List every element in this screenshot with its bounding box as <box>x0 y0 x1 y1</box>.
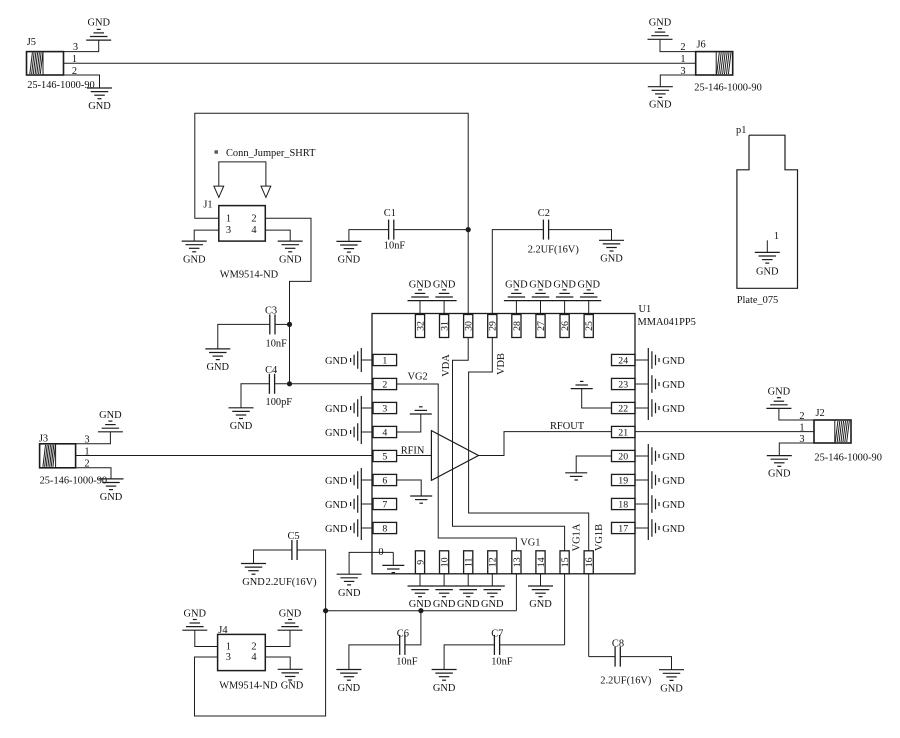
svg-text:GND: GND <box>338 683 361 694</box>
U1 pin box 11 <box>464 551 475 574</box>
J1 pin number 2 <box>251 213 256 224</box>
ground C1 <box>336 241 361 265</box>
U1 pin box 20 <box>612 450 636 462</box>
U1 pin box 10 <box>440 551 451 574</box>
svg-text:32: 32 <box>415 321 426 331</box>
ground U1 pin 7 <box>325 492 361 516</box>
svg-text:GND: GND <box>529 279 552 290</box>
svg-text:GND: GND <box>325 500 348 511</box>
wire RFOUT IC pin 21 to J2 pin1 <box>635 431 814 433</box>
wire U1 pin 20 to GND <box>635 455 648 457</box>
jumper bracket with arrows <box>214 162 271 198</box>
svg-text:GND: GND <box>99 410 122 421</box>
J6 pin number 2 <box>680 42 685 53</box>
ground J6 pin3 <box>648 87 673 111</box>
svg-text:Conn_Jumper_SHRT: Conn_Jumper_SHRT <box>226 148 316 159</box>
svg-text:VG1B: VG1B <box>594 524 605 551</box>
svg-text:25-146-1000-90: 25-146-1000-90 <box>814 452 882 463</box>
svg-text:J1: J1 <box>203 199 212 210</box>
wire U1 pin 23 to GND <box>635 383 648 385</box>
svg-text:J5: J5 <box>27 37 36 48</box>
svg-text:6: 6 <box>382 475 387 486</box>
svg-text:14: 14 <box>536 557 547 567</box>
svg-text:GND: GND <box>662 380 685 391</box>
ground C7 <box>432 670 457 695</box>
svg-text:GND: GND <box>553 279 576 290</box>
ground U1 pin 24 <box>648 348 685 372</box>
net label RFIN <box>401 446 425 457</box>
svg-text:GND: GND <box>325 524 348 535</box>
ground pin0 external <box>337 574 362 599</box>
wire U1 pin 12 to GND <box>491 574 493 586</box>
ground U1 pin 31 <box>432 279 457 300</box>
U1 pin box 5 <box>373 450 397 462</box>
svg-text:16: 16 <box>584 557 595 567</box>
ground U1 pin 18 <box>648 492 685 516</box>
svg-text:2: 2 <box>251 213 256 224</box>
U1 pin box 27 <box>536 315 547 338</box>
internal ground pin4 <box>410 407 432 414</box>
wire C8 left to pin16 net <box>589 656 615 658</box>
svg-text:GND: GND <box>662 476 685 487</box>
U1 pin box 8 <box>373 522 397 534</box>
svg-text:2.2UF(16V): 2.2UF(16V) <box>600 675 651 686</box>
svg-text:25: 25 <box>584 321 595 331</box>
wire J5 pin3 to GND <box>64 40 99 52</box>
svg-text:GND: GND <box>325 404 348 415</box>
svg-text:GND: GND <box>325 476 348 487</box>
svg-text:GND: GND <box>279 255 302 266</box>
svg-text:GND: GND <box>433 279 456 290</box>
ground C8 <box>659 670 684 695</box>
svg-text:GND: GND <box>481 599 504 610</box>
capacitor C2 2.2UF(16V) <box>528 208 579 255</box>
jumper label Conn_Jumper_SHRT <box>215 148 317 159</box>
svg-text:9: 9 <box>415 560 426 565</box>
J2 pin number 2 <box>799 411 804 422</box>
svg-text:C8: C8 <box>612 639 624 650</box>
connector J3 25-146-1000-90 <box>39 433 107 486</box>
svg-text:13: 13 <box>512 557 523 567</box>
wire U1 pin 18 to GND <box>635 503 648 505</box>
capacitor C1 10nF <box>384 208 406 252</box>
svg-text:21: 21 <box>618 427 628 438</box>
net label VG1B rotated <box>594 524 605 551</box>
ground U1 pin 10 <box>432 586 457 610</box>
capacitor C8 2.2UF(16V) <box>600 639 651 687</box>
wire J1 pin2 down to C3/C4 node <box>265 218 311 383</box>
ground C6 <box>336 670 361 695</box>
U1 pin box 30 <box>464 315 475 338</box>
svg-text:GND: GND <box>281 681 304 692</box>
U1 pin box 7 <box>373 498 397 510</box>
svg-text:GND: GND <box>87 18 110 29</box>
svg-text:GND: GND <box>100 492 123 503</box>
svg-text:10: 10 <box>440 557 451 567</box>
svg-text:4: 4 <box>382 427 387 438</box>
svg-text:C5: C5 <box>288 531 300 542</box>
svg-text:5: 5 <box>382 451 387 462</box>
ground U1 pin 9 <box>408 586 433 610</box>
wire VDB pin29 to pin16 VG1B <box>469 338 589 552</box>
internal ground pin20 <box>565 473 587 480</box>
ground U1 pin 6 <box>325 468 361 492</box>
svg-text:WM9514-ND: WM9514-ND <box>220 269 279 280</box>
wire J1 pin3 to GND <box>194 230 219 241</box>
wire U1 pin 1 to GND <box>361 359 373 361</box>
wire J6 pin2 to GND <box>660 39 696 51</box>
U1 pin box 18 <box>612 498 636 510</box>
svg-text:GND: GND <box>662 452 685 463</box>
svg-text:GND: GND <box>662 524 685 535</box>
U1 pin box 22 <box>612 402 636 414</box>
J1 pin number 1 <box>226 213 231 224</box>
ground p1 <box>755 252 780 277</box>
svg-text:10nF: 10nF <box>491 657 513 668</box>
U1 pin box 2 <box>373 378 397 390</box>
net label VG2 <box>408 372 428 383</box>
wire U1 pin 31 to GND <box>443 301 445 315</box>
U1 pin box 16 <box>584 551 595 574</box>
svg-text:VG1A: VG1A <box>572 523 583 551</box>
svg-text:11: 11 <box>464 557 475 567</box>
wire rail C5-C6-pin13 <box>326 610 517 612</box>
svg-text:VG1: VG1 <box>520 537 540 548</box>
svg-text:100pF: 100pF <box>266 397 293 408</box>
wire triangle output to pin 21 RFOUT <box>479 432 612 456</box>
wire J3 pin3 to GND <box>76 432 111 444</box>
svg-text:Plate_075: Plate_075 <box>737 295 779 306</box>
p1 pin 1 stub <box>767 231 779 252</box>
U1 pin box 29 <box>488 315 499 338</box>
svg-text:J4: J4 <box>218 625 228 636</box>
wire C4 right to IC pin 2 VG2 <box>275 383 373 385</box>
J5 pin number 1 <box>72 54 77 65</box>
wire RFIN J3 pin1 to IC pin 5 <box>76 455 373 457</box>
svg-text:GND: GND <box>505 279 528 290</box>
wire U1 pin 17 to GND <box>635 527 648 529</box>
J2 pin number 3 <box>799 434 804 445</box>
svg-text:GND: GND <box>279 608 302 619</box>
U1 pin box 1 <box>373 354 397 366</box>
U1 pin box 17 <box>612 522 636 534</box>
ground J3 pin2 <box>99 479 124 503</box>
wire C2 left down to pin 29 VDB <box>492 230 543 315</box>
wire U1 pin 10 to GND <box>443 574 445 586</box>
net label RFOUT <box>550 421 585 432</box>
svg-text:C6: C6 <box>397 629 409 640</box>
ground J4 pin1 <box>182 608 207 630</box>
U1 pin box 26 <box>560 315 571 338</box>
junction node C4 <box>287 381 292 386</box>
U1 pin box 13 <box>512 551 523 574</box>
wire RFIN pin5 to triangle <box>397 455 432 457</box>
capacitor C7 10nF <box>491 629 513 668</box>
svg-text:GND: GND <box>242 577 265 588</box>
ground U1 pin 32 <box>408 279 433 300</box>
svg-text:1: 1 <box>680 54 685 65</box>
connector J1 WM9514-ND <box>203 199 278 280</box>
svg-text:GND: GND <box>325 356 348 367</box>
wire C3 left to GND <box>218 324 270 349</box>
svg-text:GND: GND <box>433 683 456 694</box>
ground C2 <box>599 240 624 264</box>
wire J2 pin3 to GND <box>779 443 814 456</box>
svg-text:23: 23 <box>618 379 628 390</box>
ground J4 pin4 <box>278 669 304 691</box>
wire U1 pin 14 to GND <box>540 574 542 586</box>
IC U1 MMA041PP5 body <box>372 304 696 574</box>
ground J1 pin4 <box>278 241 303 265</box>
U1 pin box 32 <box>415 315 426 338</box>
wire pin4 to internal ground <box>397 414 421 432</box>
ground C3 <box>205 349 230 373</box>
svg-text:VDA: VDA <box>441 354 452 377</box>
svg-text:19: 19 <box>618 475 628 486</box>
internal ground pin0 <box>382 565 404 572</box>
U1 pin box 15 <box>560 551 571 574</box>
svg-text:GND: GND <box>662 404 685 415</box>
internal ground pin22 <box>571 381 593 388</box>
svg-text:25-146-1000-90: 25-146-1000-90 <box>694 83 762 94</box>
svg-text:8: 8 <box>382 523 387 534</box>
wire J2 pin2 to GND <box>779 408 814 420</box>
svg-text:GND: GND <box>409 279 432 290</box>
ground U1 pin 1 <box>325 348 361 372</box>
J5 pin number 2 <box>72 66 77 77</box>
svg-text:24: 24 <box>618 355 628 366</box>
svg-text:GND: GND <box>183 255 206 266</box>
svg-text:22: 22 <box>618 403 628 414</box>
svg-text:3: 3 <box>226 225 231 236</box>
svg-text:20: 20 <box>618 451 628 462</box>
svg-text:17: 17 <box>618 523 628 534</box>
wire U1 pin 4 to GND <box>361 431 373 433</box>
wire U1 pin 28 to GND <box>515 301 517 315</box>
svg-text:1: 1 <box>226 642 231 653</box>
svg-text:GND: GND <box>184 608 207 619</box>
connector J2 25-146-1000-90 <box>814 408 882 464</box>
svg-text:25-146-1000-90: 25-146-1000-90 <box>27 80 95 91</box>
ground J5 pin2 <box>87 88 112 112</box>
ground U1 pin 8 <box>325 516 361 540</box>
U1 pin box 3 <box>373 402 397 414</box>
wire pin16 down to C8 <box>588 574 590 657</box>
svg-text:4: 4 <box>251 225 257 236</box>
wire J3 pin2 to GND <box>76 468 111 479</box>
wire U1 pin 9 to GND <box>419 574 421 586</box>
wire C1 right to VDA node <box>394 229 468 231</box>
J4 pin number 4 <box>251 652 257 663</box>
capacitor C6 10nF <box>396 629 418 668</box>
J1 pin number 3 <box>226 225 231 236</box>
wire J4 pin1 to GND <box>195 630 218 646</box>
wire J5 pin2 to GND <box>64 75 100 88</box>
J3 pin number 1 <box>84 446 89 457</box>
ground J6 pin2 <box>648 18 673 40</box>
ground U1 pin 23 <box>648 372 685 396</box>
wire C8 right to GND <box>621 657 672 670</box>
ground U1 pin 17 <box>648 516 685 540</box>
svg-text:C4: C4 <box>265 365 278 376</box>
svg-text:3: 3 <box>226 652 231 663</box>
wire J6 pin3 to GND <box>660 75 695 87</box>
J6 pin number 1 <box>680 54 685 65</box>
J2 pin number 1 <box>799 422 804 433</box>
wire C5 right down to rail and J4 pin3 loop <box>195 550 326 716</box>
J4 pin number 1 <box>226 642 231 653</box>
svg-text:2.2UF(16V): 2.2UF(16V) <box>528 245 579 256</box>
ground J2 pin3 <box>767 456 792 480</box>
U1 pin box 31 <box>440 315 451 338</box>
wire U1 pin 32 to GND <box>419 301 421 315</box>
svg-text:VDB: VDB <box>496 353 507 375</box>
wire U1 pin 26 to GND <box>564 301 566 315</box>
net label VG1A rotated <box>572 523 583 551</box>
svg-text:1: 1 <box>774 231 779 242</box>
ground C4 <box>229 408 254 432</box>
ground J5 pin3 <box>86 18 111 41</box>
J5 pin number 3 <box>73 42 78 53</box>
ground J4 pin2 <box>278 608 303 630</box>
svg-text:p1: p1 <box>736 125 746 136</box>
junction node rail C5 <box>323 608 328 613</box>
ground U1 pin 22 <box>648 396 685 420</box>
svg-text:4: 4 <box>251 652 257 663</box>
connector J4 WM9514-ND <box>218 625 278 691</box>
svg-text:GND: GND <box>529 599 552 610</box>
J3 pin number 3 <box>84 435 89 446</box>
net label VDB rotated <box>496 353 507 375</box>
ground U1 pin 19 <box>648 468 685 492</box>
svg-text:U1: U1 <box>639 304 652 315</box>
svg-text:10nF: 10nF <box>384 241 406 252</box>
U1 pin box 14 <box>536 551 547 574</box>
connector J5 25-146-1000-90 <box>27 37 95 91</box>
J6 pin number 3 <box>680 66 685 77</box>
svg-text:GND: GND <box>338 588 361 599</box>
svg-text:GND: GND <box>577 279 600 290</box>
svg-text:GND: GND <box>433 599 456 610</box>
ground J1 pin3 <box>182 241 207 265</box>
svg-text:C7: C7 <box>491 629 503 640</box>
wire U1 pin 11 to GND <box>467 574 469 586</box>
ground U1 pin 25 <box>576 279 601 300</box>
svg-text:GND: GND <box>230 421 253 432</box>
wire J5 pin1 to J6 pin1 <box>64 62 696 64</box>
svg-text:0: 0 <box>378 547 383 558</box>
ground U1 pin 20 <box>648 444 685 468</box>
svg-text:GND: GND <box>662 500 685 511</box>
svg-text:28: 28 <box>512 321 523 331</box>
svg-text:WM9514-ND: WM9514-ND <box>219 681 278 692</box>
svg-text:30: 30 <box>464 321 475 331</box>
svg-text:C1: C1 <box>384 208 396 219</box>
svg-text:GND: GND <box>600 254 623 265</box>
svg-text:3: 3 <box>382 403 387 414</box>
junction node C3 <box>287 322 292 327</box>
svg-text:27: 27 <box>536 321 547 331</box>
svg-text:J6: J6 <box>697 40 706 51</box>
wire pin13 down to rail <box>515 574 517 611</box>
wire pin22 to internal ground <box>582 389 612 408</box>
U1 pin box 9 <box>415 551 426 574</box>
wire C1 left to GND <box>349 230 389 242</box>
ground C5 <box>241 564 317 588</box>
capacitor C5 2.2UF(16V) <box>288 531 300 560</box>
svg-text:29: 29 <box>488 321 499 331</box>
U1 pin box 28 <box>512 315 523 338</box>
svg-text:GND: GND <box>660 683 683 694</box>
wire U1 pin 25 to GND <box>588 301 590 315</box>
J3 pin number 2 <box>84 459 89 470</box>
svg-text:18: 18 <box>618 499 628 510</box>
svg-text:GND: GND <box>768 469 791 480</box>
ground J3 pin3 <box>98 410 123 432</box>
net label VG1 <box>520 537 540 548</box>
svg-text:10nF: 10nF <box>396 657 418 668</box>
svg-text:12: 12 <box>488 557 499 567</box>
U1 pin box 12 <box>488 551 499 574</box>
wire C5 left to GND <box>254 550 292 564</box>
ground U1 pin 4 <box>325 420 361 444</box>
svg-text:2.2UF(16V): 2.2UF(16V) <box>266 577 317 588</box>
svg-text:10nF: 10nF <box>266 338 288 349</box>
ground U1 pin 28 <box>504 279 529 300</box>
svg-text:26: 26 <box>560 321 571 331</box>
U1 pin box 4 <box>373 426 397 438</box>
U1 pin box 25 <box>584 315 595 338</box>
wire C7 right to pin15 net <box>500 644 565 646</box>
svg-text:15: 15 <box>560 557 571 567</box>
svg-text:GND: GND <box>768 387 791 398</box>
svg-text:VG2: VG2 <box>408 372 428 383</box>
svg-text:J3: J3 <box>39 433 48 444</box>
svg-text:GND: GND <box>649 18 672 29</box>
svg-text:2: 2 <box>251 642 256 653</box>
mounting plate p1 Plate_075 <box>736 125 798 306</box>
wire U1 pin 8 to GND <box>361 527 373 529</box>
svg-text:1: 1 <box>382 355 387 366</box>
wire VG2 pin2 to pin13 VG1 <box>397 384 517 551</box>
wire U1 pin 7 to GND <box>361 503 373 505</box>
svg-text:7: 7 <box>382 499 387 510</box>
ground U1 pin 12 <box>480 586 505 610</box>
J4 pin number 2 <box>251 642 256 653</box>
wire J1 pin1 to top rail and down to C1/VDA node <box>195 113 468 314</box>
svg-text:RFOUT: RFOUT <box>550 421 585 432</box>
U1 pin box 6 <box>373 474 397 486</box>
U1 pin box 24 <box>612 354 636 366</box>
wire U1 pin 27 to GND <box>540 301 542 315</box>
svg-text:GND: GND <box>756 267 779 278</box>
ground U1 pin 11 <box>456 586 481 610</box>
wire pin15 down to C7 <box>564 574 566 645</box>
wire J4 pin2 to GND <box>265 630 290 646</box>
U1 pin box 23 <box>612 378 636 390</box>
wire J4 pin4 to GND <box>265 657 290 669</box>
wire C7 left to GND <box>444 645 494 670</box>
net label VDA rotated <box>441 354 452 377</box>
wire J1 pin4 to GND <box>265 230 290 241</box>
svg-text:GND: GND <box>325 428 348 439</box>
wire C2 right to GND <box>549 230 612 241</box>
capacitor C3 10nF <box>265 305 287 349</box>
svg-text:GND: GND <box>662 356 685 367</box>
svg-text:31: 31 <box>440 321 451 331</box>
wire VDA pin30 to pin15 VG1A <box>453 338 565 552</box>
svg-text:GND: GND <box>207 362 230 373</box>
